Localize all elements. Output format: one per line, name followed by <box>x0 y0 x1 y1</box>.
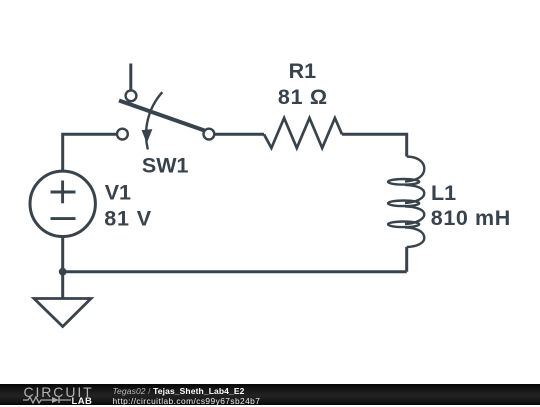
node ground junction dot <box>59 268 67 276</box>
switch SW1 top terminal circle <box>126 90 137 101</box>
footer url line <box>113 396 261 406</box>
wire top-left from V1 top to switch left terminal <box>63 134 117 172</box>
logo LAB text <box>72 396 93 407</box>
V1 minus sign <box>51 217 76 220</box>
svg-text:81 Ω: 81 Ω <box>278 85 328 109</box>
footer title line <box>113 386 245 396</box>
logo glyph resistor-diode line <box>23 396 93 404</box>
ground symbol <box>34 299 91 327</box>
voltage source V1 circle <box>30 171 95 236</box>
switch SW1 actuation arrow arc <box>146 92 162 149</box>
wire ground node to ground symbol <box>61 272 64 299</box>
wire inductor bottom to bottom-right corner <box>405 247 408 272</box>
switch SW1 top throw stub <box>129 64 132 90</box>
wire bottom rail <box>63 270 407 273</box>
svg-text:SW1: SW1 <box>142 154 189 178</box>
inductor L1 coil <box>388 157 424 248</box>
svg-text:81 V: 81 V <box>104 207 152 231</box>
switch SW1 blade <box>119 101 207 132</box>
footer bar <box>0 384 540 405</box>
svg-text:810 mH: 810 mH <box>431 206 511 230</box>
switch SW1 left terminal circle <box>117 129 128 140</box>
V1 plus sign <box>51 181 76 204</box>
svg-text:R1: R1 <box>289 59 317 83</box>
svg-text:L1: L1 <box>431 181 456 205</box>
logo CIRCUIT text <box>24 384 94 400</box>
switch SW1 arrowhead <box>142 129 153 143</box>
wire switch right terminal to resistor R1 <box>215 133 264 136</box>
wire V1 bottom to ground node <box>61 236 64 272</box>
svg-text:V1: V1 <box>105 180 131 204</box>
switch SW1 right terminal circle <box>204 129 215 140</box>
resistor R1 zigzag <box>264 118 342 148</box>
wire resistor R1 to top-right corner and down to inductor <box>342 134 407 156</box>
